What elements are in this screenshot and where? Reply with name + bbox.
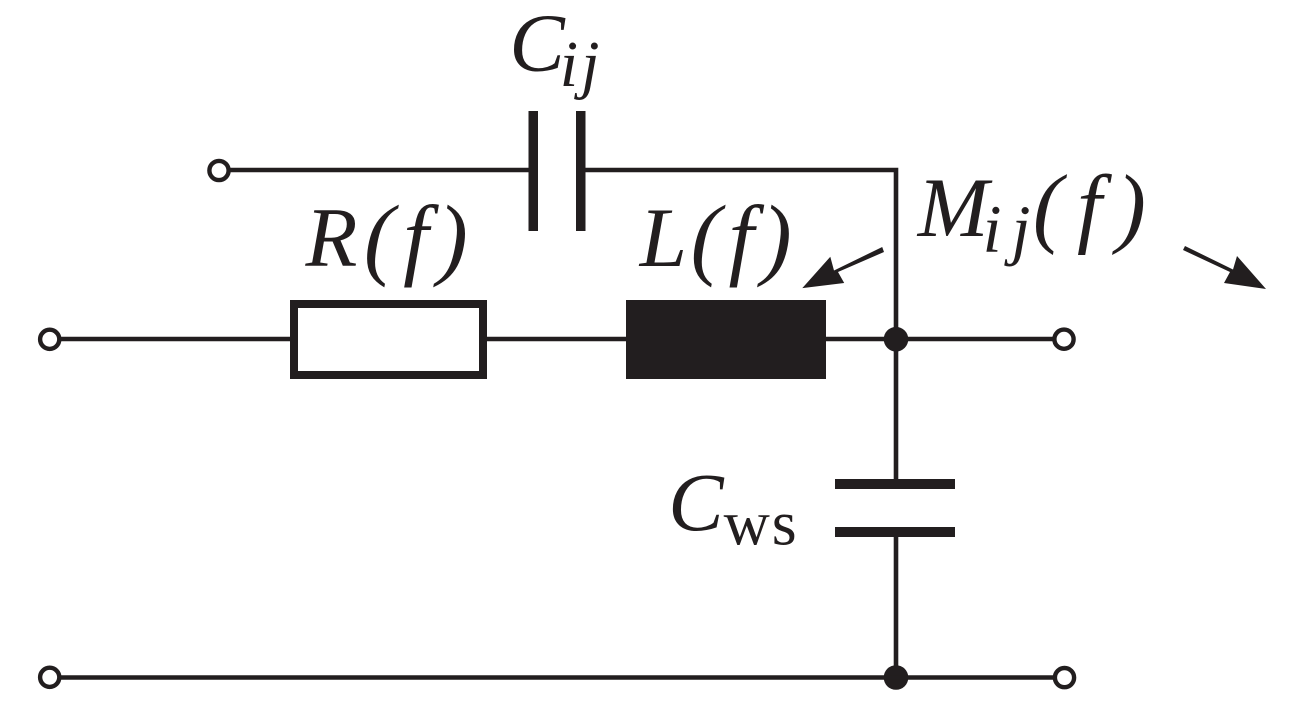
terminal T5 (bottom-right open circle) [1055,668,1074,687]
arrow pointing to node A (label M_ij(f) pointer) [802,247,884,288]
capacitor C_ws bottom plate [835,527,955,537]
resistor R1 body R(f) [294,304,483,375]
terminal T2 (middle-left open circle) [40,330,59,349]
wire top rail right segment with corner down to node A [586,170,897,479]
svg-text:L(f): L(f) [639,187,792,288]
wire C_ws bottom plate to bottom rail node B [894,537,899,678]
terminal T1 (top-left open circle) [209,161,228,180]
wire middle rail left (T2 to resistor) [61,337,294,342]
arrow M_ij coupling (right, pointing down-right) [1183,246,1266,289]
wire top rail left segment (T1 to C_ij left plate) [231,168,529,173]
node B junction dot (bottom) [884,665,909,690]
wire between resistor and inductor [487,337,626,342]
capacitor C_ij left plate [529,111,539,231]
capacitor C_ws top plate [835,479,955,489]
wire middle rail right (inductor through node A to T3) [826,337,1053,342]
wire bottom rail [61,675,1053,680]
terminal T4 (bottom-left open circle) [40,668,59,687]
node A junction dot [884,327,909,352]
inductor L1 body L(f) (solid bar) [626,300,826,379]
svg-text:R(f): R(f) [305,187,468,288]
capacitor C_ij right plate [576,111,586,231]
terminal T3 (middle-right open circle) [1054,330,1073,349]
